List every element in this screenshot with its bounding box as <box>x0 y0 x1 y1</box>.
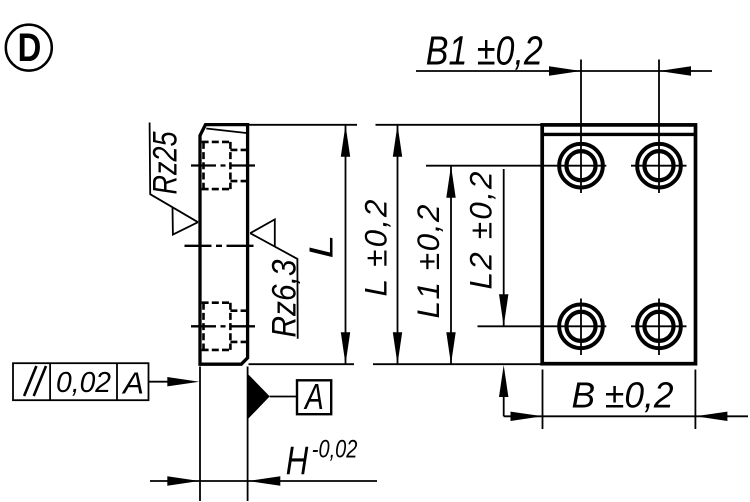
hole bottom-right <box>637 304 681 348</box>
hole axis verticals (B1 extension lines) <box>581 60 659 356</box>
hidden counterbore hole 2 <box>202 303 246 350</box>
svg-text:D: D <box>18 25 42 70</box>
L1 extension line / top-left hole horizontal <box>426 165 606 167</box>
H extension lines <box>200 367 248 502</box>
front view chamfer line <box>544 133 695 136</box>
dimension L2 +-0,2 line <box>499 169 508 416</box>
datum A box <box>297 380 331 414</box>
hole top-left <box>559 144 603 188</box>
svg-text:B1 ±0,2: B1 ±0,2 <box>426 28 543 74</box>
hole bottom-left <box>559 304 603 348</box>
svg-text:L1 ±0,2: L1 ±0,2 <box>410 204 446 318</box>
bottom extension line segment A <box>249 363 355 365</box>
svg-text:A: A <box>121 366 144 401</box>
svg-text:A: A <box>303 377 323 417</box>
B extension lines <box>543 370 696 430</box>
dimension B1 +-0,2 <box>416 66 712 75</box>
datum A symbol triangle <box>248 375 269 419</box>
svg-text:Rz25: Rz25 <box>147 131 185 194</box>
roughness symbol Rz6,3 <box>250 219 298 338</box>
centerline hole 1 <box>191 164 255 166</box>
svg-text:B ±0,2: B ±0,2 <box>572 375 674 416</box>
hidden counterbore hole 1 <box>202 142 246 189</box>
hole crosshair horizontals right column <box>631 166 687 327</box>
svg-text:Rz6,3: Rz6,3 <box>265 259 303 337</box>
leader line from frame <box>149 377 200 386</box>
svg-text:H: H <box>286 438 309 483</box>
dimension L line <box>341 125 350 364</box>
svg-text:0,02: 0,02 <box>56 367 111 399</box>
dimension L +-0,2 line <box>393 125 402 364</box>
svg-text:L: L <box>303 235 340 259</box>
centerline hole 2 <box>191 325 255 327</box>
dimension L1 +-0,2 line <box>446 166 455 365</box>
side view outline <box>200 125 248 365</box>
parallelism symbol <box>24 366 46 396</box>
svg-text:-0,02: -0,02 <box>312 435 358 463</box>
centerline middle <box>185 245 254 247</box>
top extension line segment B <box>376 124 544 126</box>
datum A leader <box>270 396 297 398</box>
side view chamfer edge line <box>206 129 246 134</box>
bottom extension line segment B <box>373 363 543 365</box>
parallelism feature control frame <box>13 363 149 400</box>
view label D circle <box>6 25 52 71</box>
svg-text:L ±0,2: L ±0,2 <box>358 199 394 296</box>
hole top-right <box>637 144 681 188</box>
roughness symbol Rz25 <box>150 123 198 235</box>
dimension B +-0,2 <box>504 412 748 421</box>
front view outline <box>542 125 695 364</box>
L2 extension line / bottom-left hole horizontal <box>478 325 607 327</box>
top extension line segment A <box>249 124 358 126</box>
dimension H <box>150 476 377 485</box>
